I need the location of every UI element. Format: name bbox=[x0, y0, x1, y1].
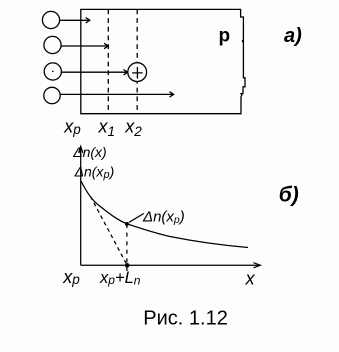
svg-text:б): б) bbox=[279, 184, 299, 207]
arrow 2 bbox=[61, 43, 108, 48]
dashed tangent line bbox=[91, 197, 128, 266]
part (b) graph bbox=[79, 146, 261, 277]
arrow 1 bbox=[60, 18, 90, 23]
electron circle 1 bbox=[42, 11, 59, 28]
decay curve bbox=[81, 181, 248, 248]
svg-text:Δn(x): Δn(x) bbox=[72, 144, 107, 160]
electron circle 4 bbox=[44, 87, 60, 103]
electron circle 3 bbox=[44, 63, 61, 80]
arrow 4 bbox=[61, 92, 174, 97]
dashed vertical line bbox=[126, 224, 128, 278]
dot on axis bbox=[125, 263, 130, 268]
y axis bbox=[80, 147, 82, 266]
svg-text:а): а) bbox=[284, 25, 302, 47]
p-region outline with torn right edge bbox=[81, 9, 245, 113]
dot in circle 3 bbox=[52, 71, 54, 73]
dot on curve bbox=[125, 222, 129, 226]
svg-text:p: p bbox=[219, 26, 231, 47]
dashed line x2 bbox=[136, 9, 138, 113]
hole circle with plus bbox=[128, 63, 147, 82]
dashed line x1 bbox=[107, 9, 109, 113]
part (a) semiconductor bar bbox=[42, 9, 245, 113]
svg-text:x: x bbox=[245, 269, 256, 289]
pointer line to label bbox=[129, 214, 144, 223]
arrow 3 bbox=[61, 70, 127, 75]
x axis bbox=[81, 264, 260, 266]
electron circle 2 bbox=[44, 36, 61, 53]
svg-text:Рис. 1.12: Рис. 1.12 bbox=[143, 307, 228, 329]
